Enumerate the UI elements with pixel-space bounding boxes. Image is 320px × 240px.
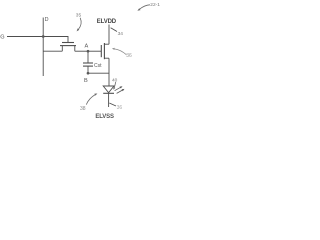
wire: node A down to capacitor Cst bbox=[87, 51, 89, 63]
transistor 36 drain leg (bottom) bbox=[104, 57, 109, 59]
svg-text:40: 40 bbox=[112, 77, 118, 83]
svg-text:22-1: 22-1 bbox=[150, 2, 160, 8]
OLED 40 cathode bar bbox=[103, 92, 114, 94]
wire: transistor 36 drain to OLED anode bbox=[108, 58, 110, 86]
svg-text:35: 35 bbox=[76, 13, 82, 19]
wire: node A to gate of transistor 36 bbox=[88, 50, 101, 52]
transistor 36 source leg (top) bbox=[104, 43, 109, 45]
arrow from label 22-1 to pixel bbox=[140, 5, 150, 9]
arrow from label 36 to transistor 36 bbox=[114, 49, 126, 55]
arrow from label 40 to OLED bbox=[114, 82, 116, 88]
junction dot at G and D crossing bbox=[42, 35, 45, 38]
transistor 35 source leg bbox=[61, 46, 63, 52]
wire: ELVDD down to transistor 36 source bbox=[108, 25, 110, 45]
capacitor Cst bottom plate bbox=[83, 65, 93, 67]
svg-text:B: B bbox=[84, 78, 88, 84]
wire: transistor 35 drain to node A bbox=[75, 50, 88, 52]
transistor 35 drain leg bbox=[74, 46, 76, 52]
svg-text:34: 34 bbox=[118, 31, 124, 37]
wire: gate line G with corner down to gate of transistor 35 bbox=[7, 37, 68, 43]
arrow from label 35 to transistor 35 bbox=[78, 18, 81, 30]
capacitor Cst top plate bbox=[83, 62, 93, 64]
wire: capacitor Cst to node B bbox=[87, 66, 89, 73]
transistor 35 channel bar bbox=[60, 45, 76, 47]
transistor 36 gate bar bbox=[100, 45, 102, 57]
arrow from label 38 to OLED cathode bbox=[86, 94, 95, 104]
node A junction dot bbox=[87, 50, 90, 53]
leader line for label 34 bbox=[111, 28, 117, 32]
svg-text:36: 36 bbox=[117, 105, 123, 111]
svg-text:ELVSS: ELVSS bbox=[95, 114, 114, 120]
svg-text:ELVDD: ELVDD bbox=[97, 19, 117, 25]
svg-text:A: A bbox=[85, 43, 89, 49]
OLED 40 anode triangle bbox=[103, 86, 114, 93]
svg-text:38: 38 bbox=[80, 106, 86, 112]
svg-text:D: D bbox=[45, 17, 49, 23]
wire: node B to OLED anode branch bbox=[88, 72, 109, 74]
svg-text:Cst: Cst bbox=[94, 63, 102, 69]
wire: data line to transistor 35 source bbox=[43, 50, 62, 52]
wire: OLED cathode to ELVSS bbox=[108, 93, 110, 107]
svg-text:G: G bbox=[0, 34, 4, 40]
transistor 36 channel bar bbox=[103, 43, 105, 59]
leader line for lower label 36 bbox=[109, 103, 116, 106]
transistor 35 gate bar bbox=[62, 42, 74, 44]
node B junction dot bbox=[87, 72, 90, 75]
wire: data line D (vertical) bbox=[42, 18, 44, 77]
OLED emission arrow 2 bbox=[117, 90, 123, 93]
OLED emission arrow 1 bbox=[115, 87, 121, 90]
svg-text:36: 36 bbox=[126, 53, 132, 59]
